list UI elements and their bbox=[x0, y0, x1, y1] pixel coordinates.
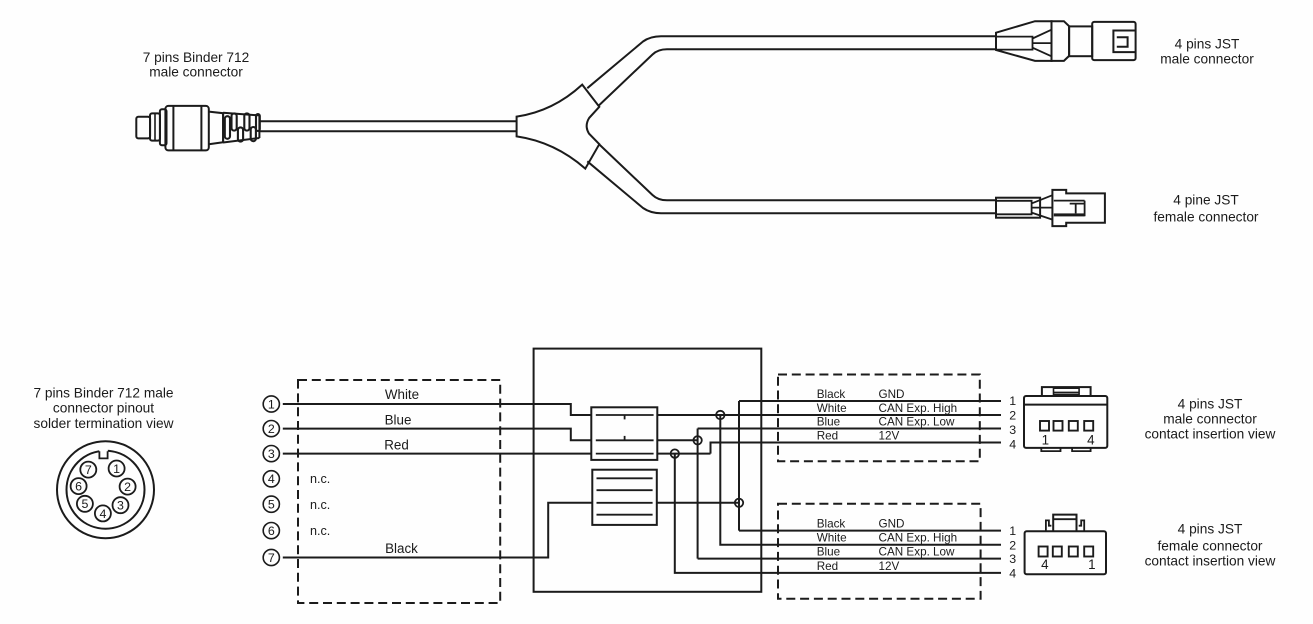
J1 keyway notch bbox=[99, 449, 108, 459]
label: female table rows bbox=[817, 518, 957, 573]
J1 collar B bbox=[160, 109, 167, 145]
connector P2: 4 pins JST female, side view bbox=[996, 190, 1105, 226]
connector J1: Binder 712 male, side view bbox=[136, 106, 259, 150]
label: 4 pine JST female connector (right caption) bbox=[1154, 193, 1259, 225]
svg-text:1: 1 bbox=[113, 462, 120, 476]
node pin6 bbox=[263, 523, 279, 539]
svg-text:4: 4 bbox=[268, 472, 275, 486]
J1 pin 5 bbox=[77, 496, 93, 512]
svg-text:4 pins JST: 4 pins JST bbox=[1178, 522, 1243, 537]
node: male pin numbers 1-4 bbox=[1009, 394, 1016, 451]
J1 pin 1 bbox=[109, 461, 125, 477]
node: female pin numbers 1-4 bbox=[1009, 524, 1016, 580]
svg-text:5: 5 bbox=[81, 497, 88, 511]
svg-text:female connector: female connector bbox=[1154, 209, 1259, 224]
label: wire colors left bbox=[310, 387, 419, 556]
junction: Red tap bbox=[671, 449, 679, 457]
P1 contact 4 bbox=[1084, 421, 1093, 431]
J1 strain relief (corrugated) bbox=[223, 113, 259, 143]
wire: Red pin3 to ferrite FB1 bbox=[283, 453, 592, 455]
svg-text:2: 2 bbox=[268, 422, 275, 436]
svg-text:5: 5 bbox=[268, 498, 275, 512]
svg-text:7 pins Binder 712 male: 7 pins Binder 712 male bbox=[33, 385, 173, 400]
svg-text:CAN Exp. Low: CAN Exp. Low bbox=[879, 415, 956, 428]
node pin7 bbox=[263, 549, 279, 565]
svg-text:1: 1 bbox=[1009, 524, 1016, 538]
svg-text:7: 7 bbox=[268, 551, 275, 565]
svg-text:CAN Exp. High: CAN Exp. High bbox=[879, 402, 958, 415]
node pin1 bbox=[263, 396, 279, 412]
svg-text:Blue: Blue bbox=[385, 412, 412, 427]
label: 7 pins Binder 712 male connector (top-left caption) bbox=[143, 50, 250, 80]
P2 contact 3 bbox=[1069, 547, 1078, 557]
svg-text:female connector: female connector bbox=[1158, 539, 1263, 554]
svg-text:male connector: male connector bbox=[149, 65, 243, 80]
svg-text:4: 4 bbox=[99, 507, 106, 521]
junction: White tap bbox=[716, 411, 724, 419]
connector P1 contact insertion view (male) bbox=[1024, 387, 1107, 451]
wire: Black from FB2 to both connectors bbox=[657, 401, 1001, 531]
svg-text:connector pinout: connector pinout bbox=[53, 401, 154, 416]
Y-split boot bbox=[517, 85, 600, 169]
J1 pin 7 bbox=[80, 462, 96, 478]
svg-text:1: 1 bbox=[1042, 432, 1049, 447]
svg-text:Red: Red bbox=[817, 560, 838, 573]
wire: White pin1 to ferrite FB1 bbox=[283, 404, 592, 415]
P1 boot bbox=[996, 21, 1052, 61]
svg-text:White: White bbox=[817, 532, 847, 545]
connector J1 pinout: solder termination view bbox=[57, 441, 154, 538]
svg-text:White: White bbox=[817, 402, 847, 415]
svg-text:4 pine JST: 4 pine JST bbox=[1173, 193, 1239, 208]
connector P2 contact insertion view (female) bbox=[1025, 515, 1106, 575]
svg-text:Black: Black bbox=[385, 541, 418, 556]
P2 contact 2 bbox=[1053, 547, 1062, 557]
dashed group: JST male wire table bbox=[778, 375, 980, 462]
wire: Black pin7 to ferrite FB2 bbox=[283, 503, 593, 558]
wire: White from FB1 to both connectors bbox=[657, 415, 1001, 545]
P2 housing bbox=[1052, 190, 1105, 226]
P2 contact 1 bbox=[1039, 547, 1048, 557]
svg-text:2: 2 bbox=[1009, 409, 1016, 423]
svg-text:male connector: male connector bbox=[1160, 51, 1254, 66]
J1 collar A bbox=[150, 113, 160, 140]
svg-text:solder termination view: solder termination view bbox=[34, 416, 174, 431]
svg-text:12V: 12V bbox=[879, 429, 900, 442]
J1 pin 4 bbox=[95, 505, 111, 521]
svg-text:n.c.: n.c. bbox=[310, 472, 330, 486]
svg-text:4: 4 bbox=[1087, 432, 1095, 447]
svg-text:n.c.: n.c. bbox=[310, 524, 330, 538]
svg-text:4: 4 bbox=[1009, 437, 1016, 451]
J1 tip bbox=[136, 117, 150, 139]
connector P1: 4 pins JST male, side view bbox=[996, 21, 1136, 61]
svg-text:3: 3 bbox=[1009, 552, 1016, 566]
P2 body bbox=[1025, 531, 1106, 574]
P2 contact 4 bbox=[1084, 547, 1093, 557]
svg-text:7 pins Binder 712: 7 pins Binder 712 bbox=[143, 50, 250, 65]
svg-text:Blue: Blue bbox=[817, 415, 840, 428]
node pin2 bbox=[263, 421, 279, 437]
wire: Blue from FB1 to both connectors bbox=[657, 429, 1001, 559]
node pin4 bbox=[263, 471, 279, 487]
J1 pin 2 bbox=[120, 479, 136, 495]
svg-text:male connector: male connector bbox=[1163, 412, 1257, 427]
J1 outer shell circle bbox=[57, 441, 154, 538]
svg-text:1: 1 bbox=[1009, 394, 1016, 408]
svg-text:White: White bbox=[385, 387, 419, 402]
label: pinout caption (bottom-left) bbox=[33, 385, 173, 431]
svg-text:7: 7 bbox=[85, 463, 92, 477]
node column: J1 pin numbers 1-7 bbox=[263, 396, 279, 566]
svg-text:1: 1 bbox=[1088, 557, 1095, 572]
P2 crimp bbox=[996, 198, 1040, 218]
svg-text:Red: Red bbox=[817, 429, 838, 442]
svg-text:GND: GND bbox=[879, 388, 905, 401]
svg-text:2: 2 bbox=[124, 480, 131, 494]
svg-text:Blue: Blue bbox=[817, 546, 840, 559]
svg-text:3: 3 bbox=[117, 499, 124, 513]
svg-text:2: 2 bbox=[1009, 538, 1016, 552]
svg-text:3: 3 bbox=[268, 447, 275, 461]
label: 4 pins JST male connector (top-right caption) bbox=[1160, 37, 1254, 67]
svg-text:6: 6 bbox=[75, 480, 82, 494]
svg-text:6: 6 bbox=[268, 524, 275, 538]
J1 neck taper bbox=[209, 112, 223, 145]
P1 contact 1 bbox=[1040, 421, 1049, 431]
svg-text:CAN Exp. High: CAN Exp. High bbox=[879, 532, 958, 545]
J1 main body bbox=[165, 106, 208, 150]
J1 pin 3 bbox=[113, 497, 129, 513]
wire: Blue pin2 to ferrite FB1 bbox=[283, 429, 592, 441]
J1 pin 6 bbox=[71, 478, 87, 494]
P1 crimp bbox=[996, 37, 1033, 50]
junction: Black tap bbox=[735, 499, 743, 507]
P1 housing bbox=[1092, 22, 1135, 60]
svg-text:4 pins JST: 4 pins JST bbox=[1178, 396, 1243, 411]
node pin5 bbox=[263, 496, 279, 512]
P1 feet bbox=[1041, 448, 1060, 451]
svg-text:12V: 12V bbox=[879, 560, 900, 573]
svg-text:n.c.: n.c. bbox=[310, 498, 330, 512]
svg-text:1: 1 bbox=[268, 397, 275, 411]
dashed group: JST female wire table bbox=[778, 504, 981, 599]
svg-text:4: 4 bbox=[1009, 566, 1016, 580]
ferrite FB1 (CAN pair + 12V) bbox=[591, 407, 657, 460]
wire: Red to both connectors bbox=[657, 443, 1001, 573]
label: male insertion view caption bbox=[1145, 396, 1276, 441]
P2 top latch bbox=[1053, 515, 1076, 532]
P1 contact 3 bbox=[1069, 421, 1078, 431]
svg-text:GND: GND bbox=[879, 518, 905, 531]
dashed group: Binder side wire bundle bbox=[298, 380, 500, 603]
junction: Blue tap bbox=[693, 436, 701, 444]
wire: main cable from J1 to Y-split bbox=[259, 121, 516, 131]
J1 insert circle bbox=[67, 451, 145, 529]
svg-text:Black: Black bbox=[817, 518, 846, 531]
svg-text:4 pins JST: 4 pins JST bbox=[1175, 37, 1240, 52]
label: male table rows bbox=[817, 388, 957, 443]
wire: upper branch cable bbox=[587, 36, 996, 105]
P1 retention ring bbox=[1052, 21, 1070, 61]
svg-text:3: 3 bbox=[1009, 423, 1016, 437]
P1 neck bbox=[1069, 26, 1092, 56]
enclosure box (overmold) bbox=[534, 349, 762, 592]
svg-text:Red: Red bbox=[384, 437, 409, 452]
ferrite FB2 (GND) bbox=[592, 470, 657, 525]
svg-text:CAN Exp. Low: CAN Exp. Low bbox=[879, 546, 956, 559]
label: female insertion view caption bbox=[1145, 522, 1276, 569]
svg-text:4: 4 bbox=[1041, 557, 1049, 572]
node pin3 bbox=[263, 446, 279, 462]
svg-text:Black: Black bbox=[817, 388, 846, 401]
P1 contact 2 bbox=[1054, 421, 1063, 431]
svg-text:contact insertion view: contact insertion view bbox=[1145, 553, 1276, 568]
wire: lower branch cable bbox=[587, 144, 996, 213]
P1 top latch tab bbox=[1042, 387, 1091, 396]
P1 body bbox=[1024, 396, 1107, 448]
svg-text:contact insertion view: contact insertion view bbox=[1145, 426, 1276, 441]
